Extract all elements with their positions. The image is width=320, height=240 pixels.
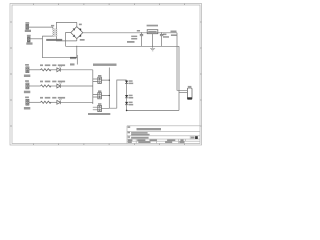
wire J1 to transformer primary — [29, 27, 53, 29]
label T1 ref — [51, 25, 54, 27]
wire +5V down right side — [177, 33, 187, 91]
title block title text — [131, 137, 149, 139]
wire row2 left — [29, 85, 41, 87]
transformer T1 — [53, 28, 57, 37]
wire gnd down right side — [178, 46, 180, 110]
label C2 ref — [163, 34, 166, 36]
label D7 value — [129, 104, 134, 106]
wire transformer secondary bottom to bridge — [56, 37, 76, 41]
wire bus B — [117, 80, 127, 108]
resistor R2 — [41, 85, 52, 87]
label J4 value — [24, 91, 30, 94]
wire bridge AC top stub — [76, 22, 78, 26]
label D7 — [129, 102, 133, 104]
sheet outer border frame — [10, 4, 202, 146]
title block file label — [128, 132, 130, 134]
power flag net marker — [70, 55, 77, 66]
wire bus V1 — [92, 70, 94, 104]
title block id text — [180, 139, 183, 141]
wire row3 right — [60, 101, 93, 103]
label D2 — [52, 64, 56, 66]
title block rev2 text — [167, 139, 175, 141]
sheet inner border frame — [12, 5, 200, 144]
label D5 value — [129, 83, 134, 85]
title block file text line1 — [131, 132, 148, 134]
wire bridge AC bottom stub — [76, 39, 78, 41]
connector J8 — [98, 105, 102, 111]
label R3 — [40, 97, 43, 99]
wire C1 stubs — [141, 33, 143, 35]
label D1 ref — [79, 24, 82, 26]
wire row1 mid — [49, 69, 56, 71]
wire row1 right — [60, 69, 93, 71]
wire J7 pins — [93, 94, 110, 97]
wire J2 to gnd net — [30, 38, 42, 40]
LED D4 — [57, 99, 62, 104]
label long note top — [93, 64, 117, 66]
buzzer LS1 — [187, 88, 192, 99]
label J2 ref — [27, 35, 31, 37]
wire J6 pins — [93, 79, 110, 82]
wire transformer secondary top to bridge — [56, 22, 76, 28]
label D1 value — [80, 39, 85, 41]
wire bottom gnd return — [127, 109, 179, 111]
bridge rectifier D1 — [71, 27, 83, 39]
label J6 ref — [98, 75, 101, 77]
connector J1 screw terminal (AC in, top) — [26, 24, 29, 29]
resistor R1 — [41, 69, 52, 71]
row 3 connector J5 — [26, 99, 29, 105]
LED D6 — [125, 95, 128, 98]
label long note bottom — [88, 113, 110, 115]
title block kicad text — [128, 141, 132, 143]
label D6 — [129, 95, 133, 97]
label T1 value — [46, 39, 62, 41]
LED chain wire — [126, 80, 128, 110]
label U1 inside pins — [148, 31, 156, 32]
junction gnd — [152, 46, 153, 47]
wire bridge plus to regulator rail — [83, 32, 177, 34]
junction bus A row2 — [109, 95, 110, 96]
wire row1 left — [29, 69, 41, 71]
LED D5 — [125, 81, 128, 84]
row 2 connector J4 — [26, 83, 29, 89]
label C1 value — [131, 36, 137, 38]
label LS1 ref — [188, 86, 192, 88]
label J1 value — [25, 30, 31, 32]
label wire note — [171, 34, 177, 36]
label J8 ref — [98, 103, 101, 105]
title block kicad box — [195, 136, 198, 139]
label D5 — [129, 80, 133, 82]
label C1 ref — [137, 30, 140, 32]
connector J7 — [98, 93, 102, 99]
wire bridge minus to gnd rail — [66, 33, 71, 47]
regulator U1 — [147, 30, 158, 34]
LED D2 — [57, 66, 62, 71]
title block title label — [128, 136, 130, 138]
label J5 ref — [25, 97, 29, 99]
label +5V net — [171, 31, 177, 33]
wire bus A — [109, 68, 117, 109]
junction LED chain bottom — [126, 110, 128, 112]
label D3 — [52, 81, 56, 83]
wire row3 mid — [49, 101, 56, 103]
label U1 ref above — [147, 25, 158, 27]
wire gnd rail horizontal — [66, 45, 180, 47]
junction C2 top — [161, 32, 162, 33]
label J5 value — [24, 107, 30, 110]
label C1 value2 — [131, 38, 137, 40]
wire U1 gnd pin — [152, 34, 154, 47]
capacitor C1 — [140, 34, 143, 35]
label R1 — [40, 64, 43, 66]
label C2 value — [163, 36, 169, 38]
title block kicad text3 — [165, 141, 172, 143]
ground symbol — [150, 46, 155, 51]
title block sheet label — [128, 126, 131, 128]
label R2 — [40, 81, 43, 83]
wire transformer primary bottom — [43, 36, 77, 58]
LED D3 — [57, 83, 62, 88]
wire row2 mid — [49, 85, 56, 87]
title block rev text — [191, 137, 195, 139]
title block sheet text — [137, 128, 162, 130]
wire J8 pins — [93, 107, 110, 110]
row 1 connector J3 — [26, 67, 29, 73]
wire gnd to buzzer pin — [179, 92, 187, 94]
capacitor C2 — [160, 34, 163, 35]
label D6 value — [129, 97, 134, 99]
label J1 ref — [25, 22, 29, 24]
title block date label — [137, 139, 145, 141]
label J4 ref — [25, 80, 29, 82]
label J7 ref — [98, 90, 101, 92]
connector J2 screw terminal (lower) — [27, 37, 30, 42]
label gnd net — [127, 41, 135, 43]
label J3 value — [24, 75, 30, 78]
wire row3 left — [29, 101, 41, 103]
label D4 — [52, 97, 56, 99]
junction bus A row1 — [109, 80, 110, 81]
title block — [127, 126, 200, 144]
title block date text — [150, 139, 157, 141]
title block size text — [128, 139, 133, 141]
wire C2 stubs — [161, 33, 163, 35]
label J2 value — [26, 42, 32, 44]
title block file text line2 — [131, 134, 150, 136]
wire row2 right — [60, 85, 93, 87]
label J3 ref — [25, 64, 29, 66]
junction C1 top — [141, 32, 142, 33]
resistor R3 — [41, 101, 52, 103]
connector J6 — [98, 77, 102, 83]
LED D7 — [125, 102, 128, 105]
junction gnd stub — [76, 46, 77, 47]
title block kicad text2 — [138, 141, 150, 143]
title block kicad text4 — [179, 141, 184, 143]
